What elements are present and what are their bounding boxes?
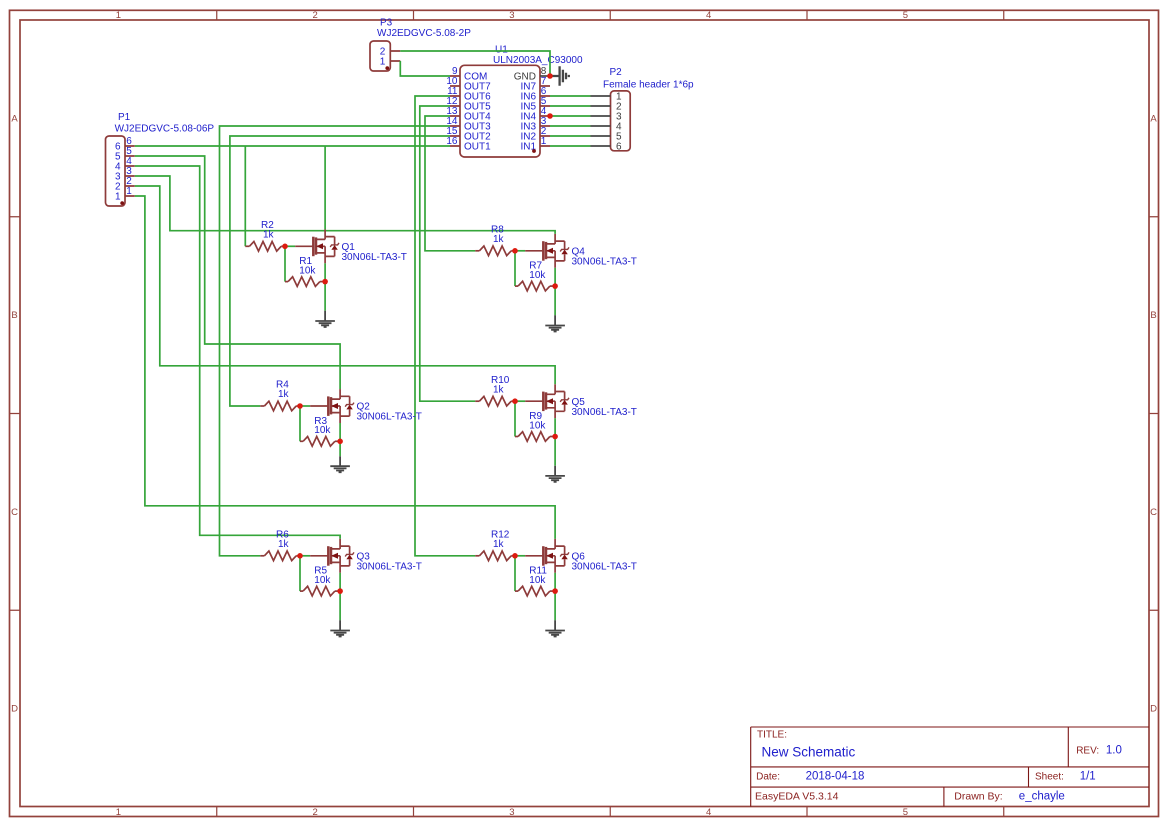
- svg-text:1: 1: [541, 136, 547, 147]
- svg-text:10k: 10k: [314, 425, 331, 436]
- svg-text:B: B: [11, 310, 17, 321]
- junction Q1 source node: [322, 279, 328, 285]
- U1 pin-1 marker dot: [532, 149, 536, 153]
- wire P1.1 to Q6 drain: [135, 196, 555, 539]
- svg-text:1.0: 1.0: [1106, 744, 1122, 756]
- connector P3: [370, 41, 400, 71]
- junction Q5 gate node: [512, 398, 518, 404]
- Q2 labels: [357, 402, 422, 423]
- wire U1 IN2 to P2 pin 5: [550, 135, 591, 137]
- svg-text:e_chayle: e_chayle: [1019, 790, 1065, 802]
- ground at Q2: [330, 456, 350, 472]
- wire P1.3 to Q4 drain: [135, 176, 555, 234]
- junction GND node: [547, 73, 553, 79]
- wire P1.4 to Q3 drain: [135, 166, 340, 539]
- svg-text:10k: 10k: [314, 575, 331, 586]
- resistor R5 10k: [300, 566, 340, 596]
- svg-text:Sheet:: Sheet:: [1035, 772, 1064, 783]
- wire P1.5 to Q2 drain: [135, 156, 340, 389]
- Q1 labels: [342, 242, 407, 263]
- U1 pin stubs left (9-16): [450, 76, 460, 146]
- U1 pin stubs right (7-1): [540, 86, 550, 146]
- resistor R6 1k: [260, 530, 300, 561]
- svg-text:4: 4: [706, 807, 711, 818]
- Q4 labels: [572, 246, 637, 267]
- Q3 labels: [357, 551, 422, 572]
- wire U1 IN1 to P2 pin 6: [550, 145, 591, 147]
- wire gate node down to R7: [514, 251, 516, 286]
- wire Q3 gate: [300, 555, 310, 557]
- U1 pin numbers left: [446, 66, 458, 147]
- connector P2: [591, 91, 631, 153]
- svg-text:5: 5: [903, 807, 908, 818]
- wire Q4 gate: [515, 250, 525, 252]
- svg-text:10k: 10k: [299, 265, 316, 276]
- svg-text:1: 1: [116, 10, 121, 21]
- transistor Q4 30N06L-TA3-T: [525, 234, 569, 268]
- ground at Q3: [330, 620, 350, 636]
- svg-text:Female header 1*6p: Female header 1*6p: [603, 80, 694, 91]
- svg-text:D: D: [11, 704, 18, 715]
- junction Q6 gate node: [512, 553, 518, 559]
- connector P1: [106, 136, 135, 206]
- svg-text:1: 1: [380, 57, 386, 68]
- wire U1 IN5 to P2 pin 2: [550, 105, 591, 107]
- svg-text:Drawn By:: Drawn By:: [954, 790, 1002, 802]
- wire P1.6 branch to Q1 drain: [324, 146, 326, 229]
- svg-text:30N06L-TA3-T: 30N06L-TA3-T: [572, 562, 637, 573]
- wire gate node down to R3: [299, 406, 301, 441]
- wire Q6 source to ground: [554, 573, 556, 621]
- transistor Q6 30N06L-TA3-T: [525, 539, 569, 573]
- transistor Q3 30N06L-TA3-T: [310, 539, 354, 573]
- svg-text:10k: 10k: [529, 270, 546, 281]
- wire Q1 gate: [285, 245, 295, 247]
- svg-text:WJ2EDGVC-5.08-2P: WJ2EDGVC-5.08-2P: [377, 28, 471, 39]
- wire U1 OUT6 to R12: [415, 96, 475, 556]
- junction Q2 source node: [337, 439, 343, 445]
- wire P1.2 to Q5 drain: [135, 186, 555, 384]
- wire U1 IN4 to P2 pin 3: [550, 115, 591, 117]
- svg-text:10k: 10k: [529, 420, 546, 431]
- svg-text:A: A: [11, 114, 18, 125]
- svg-text:2018-04-18: 2018-04-18: [806, 771, 865, 783]
- junction Q4 gate node: [512, 248, 518, 254]
- wire gate node down to R11: [514, 556, 516, 591]
- svg-text:1: 1: [116, 807, 121, 818]
- svg-text:4: 4: [706, 10, 711, 21]
- resistor R2 1k: [245, 220, 285, 251]
- svg-text:ULN2003A_C93000: ULN2003A_C93000: [493, 55, 583, 66]
- wire U1 IN3 to P2 pin 4: [550, 125, 591, 127]
- svg-text:30N06L-TA3-T: 30N06L-TA3-T: [357, 412, 422, 423]
- junction IN4 node: [547, 113, 553, 119]
- resistor R9 10k: [515, 411, 555, 441]
- svg-text:EasyEDA V5.3.14: EasyEDA V5.3.14: [755, 790, 839, 802]
- svg-text:Date:: Date:: [756, 772, 780, 783]
- svg-text:2: 2: [312, 10, 317, 21]
- svg-text:2: 2: [312, 807, 317, 818]
- wire OUT1 branch to R2: [244, 146, 246, 246]
- Q5 labels: [572, 397, 637, 418]
- junction Q6 source node: [552, 588, 558, 594]
- ground at Q5: [545, 466, 565, 482]
- resistor R3 10k: [300, 416, 340, 446]
- svg-text:New Schematic: New Schematic: [762, 744, 856, 759]
- junction Q4 source node: [552, 283, 558, 289]
- wire Q5 source to ground: [554, 418, 556, 466]
- wire U1 OUT2 to R4: [230, 136, 450, 406]
- wire U1 OUT3 to R6: [220, 126, 451, 556]
- svg-text:C: C: [11, 507, 18, 518]
- resistor R11 10k: [515, 566, 555, 596]
- wire Q2 gate: [300, 405, 310, 407]
- wire gate node down to R1: [284, 246, 286, 281]
- svg-text:10k: 10k: [529, 575, 546, 586]
- svg-text:30N06L-TA3-T: 30N06L-TA3-T: [357, 562, 422, 573]
- wire U1 OUT5 to R10: [420, 106, 476, 401]
- title block: [751, 727, 1149, 807]
- svg-text:1k: 1k: [278, 389, 290, 400]
- wire Q6 gate: [515, 555, 525, 557]
- svg-text:30N06L-TA3-T: 30N06L-TA3-T: [572, 257, 637, 268]
- svg-text:30N06L-TA3-T: 30N06L-TA3-T: [342, 252, 407, 263]
- P1 labels: [115, 112, 215, 135]
- U1 pin numbers right: [541, 66, 547, 147]
- svg-text:3: 3: [509, 10, 514, 21]
- resistor R12 1k: [475, 530, 515, 561]
- svg-text:1k: 1k: [278, 539, 290, 550]
- junction Q3 gate node: [297, 553, 303, 559]
- resistor R7 10k: [515, 261, 555, 291]
- P1 pin-1 marker dot: [120, 201, 124, 205]
- wire gate node down to R9: [514, 401, 516, 436]
- junction Q1 gate node: [282, 244, 288, 250]
- P2 labels: [603, 67, 694, 91]
- svg-text:1: 1: [115, 192, 121, 203]
- wire Q2 source to ground: [339, 423, 341, 456]
- ground at Q1: [315, 311, 335, 327]
- transistor Q2 30N06L-TA3-T: [310, 389, 354, 423]
- svg-text:WJ2EDGVC-5.08-06P: WJ2EDGVC-5.08-06P: [115, 124, 215, 135]
- svg-text:REV:: REV:: [1076, 745, 1099, 756]
- U1 pin names: [464, 72, 536, 153]
- svg-text:P2: P2: [610, 67, 623, 78]
- P3 pin-1 marker dot: [385, 66, 389, 70]
- svg-text:OUT1: OUT1: [464, 142, 491, 153]
- transistor Q1 30N06L-TA3-T: [295, 229, 339, 263]
- svg-text:C: C: [1150, 507, 1157, 518]
- ground flag GND net: [550, 66, 569, 85]
- resistor R1 10k: [285, 256, 325, 286]
- svg-text:A: A: [1150, 114, 1157, 125]
- wire P3.1 to U1 COM: [400, 61, 450, 76]
- junction Q3 source node: [337, 588, 343, 594]
- svg-text:5: 5: [903, 10, 908, 21]
- svg-text:B: B: [1150, 310, 1156, 321]
- wire gate node down to R5: [299, 556, 301, 591]
- wire U1 OUT1 / P1.6 bus: [135, 145, 450, 147]
- wire Q4 source to ground: [554, 268, 556, 316]
- svg-text:1k: 1k: [493, 234, 505, 245]
- svg-text:P1: P1: [118, 112, 131, 123]
- IC U1 ULN2003A body: [460, 65, 540, 157]
- wire U1 IN6 to P2 pin 1: [550, 95, 591, 97]
- wire Q3 source to ground: [339, 573, 341, 621]
- svg-text:30N06L-TA3-T: 30N06L-TA3-T: [572, 407, 637, 418]
- svg-text:D: D: [1150, 704, 1157, 715]
- svg-text:3: 3: [509, 807, 514, 818]
- svg-text:1k: 1k: [493, 539, 505, 550]
- ground at Q4: [545, 315, 565, 331]
- Q6 labels: [572, 551, 637, 572]
- resistor R10 1k: [475, 375, 515, 406]
- P3 labels: [377, 18, 471, 39]
- svg-text:1k: 1k: [263, 229, 275, 240]
- wire Q5 gate: [515, 400, 525, 402]
- wire U1 OUT4 to R8: [425, 116, 475, 251]
- U1 labels: [493, 45, 583, 66]
- junction Q5 source node: [552, 434, 558, 440]
- svg-text:TITLE:: TITLE:: [757, 729, 787, 740]
- svg-text:1/1: 1/1: [1080, 771, 1096, 783]
- svg-text:1: 1: [126, 186, 132, 197]
- resistor R4 1k: [260, 380, 300, 411]
- junction Q2 gate node: [297, 403, 303, 409]
- wire Q1 source to ground: [324, 263, 326, 311]
- svg-text:6: 6: [616, 142, 622, 153]
- svg-text:1k: 1k: [493, 384, 505, 395]
- wire P3.2 to GND node: [400, 51, 550, 76]
- ground at Q6: [545, 620, 565, 636]
- transistor Q5 30N06L-TA3-T: [525, 384, 569, 418]
- U1 pin 8 GND stub: [540, 75, 550, 77]
- resistor R8 1k: [475, 225, 515, 256]
